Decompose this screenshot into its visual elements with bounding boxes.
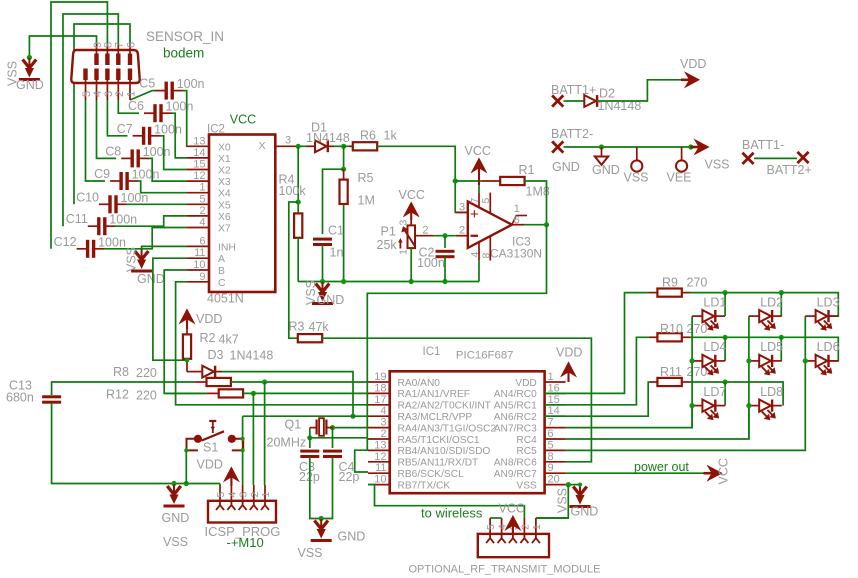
resistor R4 100k <box>294 213 302 237</box>
pin 14 AN6/RC2 of IC1 <box>545 415 566 417</box>
svg-text:5: 5 <box>480 198 492 204</box>
svg-text:4: 4 <box>199 217 205 229</box>
svg-text:SENSOR_IN: SENSOR_IN <box>146 29 224 44</box>
svg-text:LD7: LD7 <box>703 385 726 399</box>
wire R10 row to LED row2 cathodes <box>690 337 838 361</box>
wire IC1 pin2 row to crystal left <box>310 437 368 439</box>
pin 2 X6 of IC2 <box>187 215 209 217</box>
svg-text:VCC: VCC <box>465 144 491 158</box>
wire crystal right down to C4 <box>332 428 334 448</box>
wire junction down to R5 node <box>343 146 345 169</box>
svg-text:+: + <box>470 206 479 223</box>
svg-text:VCC: VCC <box>230 113 256 127</box>
pin 3 of IC3 <box>456 211 468 213</box>
svg-text:RB4/AN10/SDI/SDO: RB4/AN10/SDI/SDO <box>398 446 491 457</box>
pin 6 output of IC3 <box>512 224 525 226</box>
resistor R2 4k7 <box>186 329 188 336</box>
wire net from DB9 pin 7 wrap-around to C11 column <box>63 14 118 226</box>
svg-text:AN7/RC3: AN7/RC3 <box>494 423 537 434</box>
svg-text:B: B <box>218 266 225 277</box>
svg-text:X: X <box>259 141 266 152</box>
svg-text:R12: R12 <box>106 388 129 402</box>
potentiometer P1 25k <box>408 225 416 248</box>
ground symbol at IC2 INH <box>135 251 142 260</box>
svg-text:R1: R1 <box>519 163 535 177</box>
pin 19 RA0/AN0 of IC1 <box>368 381 390 383</box>
wire R9 row to LED row1 cathodes <box>690 293 838 317</box>
svg-text:BATT1+: BATT1+ <box>551 83 596 97</box>
node GND arrow junction bottom-left <box>171 481 176 486</box>
svg-text:R9: R9 <box>662 276 678 290</box>
svg-text:R2: R2 <box>200 331 216 345</box>
supply arrow VDD top right <box>681 79 690 82</box>
svg-text:4: 4 <box>469 252 481 258</box>
node ICSP1 junction on R8 row <box>262 379 267 384</box>
wire IC2 B select down to R12 <box>164 270 206 393</box>
switch S1 <box>187 439 198 451</box>
supply arrow VCC at RF pin3 <box>512 523 514 534</box>
svg-text:2: 2 <box>422 225 428 237</box>
wire R12 to IC1 RA1 <box>243 392 368 394</box>
svg-text:1: 1 <box>397 249 409 255</box>
svg-text:2: 2 <box>114 91 126 97</box>
node C1 rail junction <box>320 279 325 284</box>
svg-text:13: 13 <box>374 439 386 451</box>
wire IC1 pin9 power out <box>566 472 704 474</box>
resistor R11 270 <box>650 381 657 383</box>
svg-text:AN9/RC7: AN9/RC7 <box>494 469 537 480</box>
svg-text:-+M10: -+M10 <box>227 535 264 550</box>
svg-text:VSS: VSS <box>298 546 323 560</box>
node S1 left junction <box>184 481 189 486</box>
svg-text:9: 9 <box>548 462 554 474</box>
svg-text:LD4: LD4 <box>703 340 726 354</box>
node VSS arrow junction <box>688 144 693 149</box>
wire MCLR vertical S1 right to ICSP pin3 and pin-4 row <box>242 416 244 485</box>
wire C13 bottom to ground rail <box>52 403 220 484</box>
svg-text:bodem: bodem <box>163 46 204 61</box>
capacitor C13 680n <box>42 395 61 398</box>
node D1 output junction <box>341 144 346 149</box>
wire C10 to IC2 <box>126 203 187 205</box>
wire ICSP pin5 to ground rail <box>219 484 221 487</box>
svg-text:R11: R11 <box>660 365 682 379</box>
wire D3 cathode to MCLR node <box>222 372 353 417</box>
svg-text:AN6/RC2: AN6/RC2 <box>494 412 537 423</box>
LED LD6 <box>805 360 815 362</box>
svg-text:20: 20 <box>548 474 560 486</box>
capacitor C4 22p <box>323 450 342 453</box>
wire IC1 pin6 to LED column2 <box>566 406 749 439</box>
svg-text:100k: 100k <box>279 184 307 198</box>
pin 6 RC4 of IC1 <box>545 438 566 440</box>
wire IC2 X to D1 anode <box>297 145 306 147</box>
svg-text:13: 13 <box>193 135 205 147</box>
svg-text:11: 11 <box>194 247 205 259</box>
LED LD3 <box>805 315 815 317</box>
wire IC1 pin14 to R11 <box>545 382 650 416</box>
wire C1 bottom to rail <box>322 245 324 282</box>
connector X1 SENSOR_IN DB9 <box>71 50 139 83</box>
svg-text:X1: X1 <box>218 154 231 165</box>
capacitor C12 100n <box>77 248 87 250</box>
svg-text:power out: power out <box>634 460 689 474</box>
pin 11 A of IC2 <box>187 257 209 259</box>
wire IC1 pin20 VSS to ground <box>566 484 580 486</box>
pin 18 RA1/AN1/VREF of IC1 <box>368 392 390 394</box>
svg-text:9: 9 <box>199 271 205 283</box>
pin 3 X output of IC2 <box>275 145 297 147</box>
pin 10 RB7/TX/CK of IC1 <box>368 484 390 486</box>
svg-text:10: 10 <box>193 259 205 271</box>
svg-text:VEE: VEE <box>667 171 692 185</box>
wire IC2 INH to ground <box>142 246 187 249</box>
wire B-select R12 row <box>164 392 206 394</box>
wire R4 bottom to rail <box>297 237 299 281</box>
node output junction <box>544 222 549 227</box>
svg-text:22p: 22p <box>339 470 360 484</box>
svg-text:4: 4 <box>226 492 238 498</box>
wire R8 to IC1 RA0 <box>231 381 368 383</box>
crystal Q1 20MHz <box>310 427 316 429</box>
pin 2 of IC3 <box>456 235 468 237</box>
wire IC1 pin10 RB7 to wireless <box>368 485 524 518</box>
pin 6 INH of IC2 <box>187 245 209 247</box>
wire IC1 pin5 to LED column3 <box>566 361 806 451</box>
wire BATT1+ to D2 <box>564 100 585 102</box>
pin 2 RA5/T1CKI/OSC1 of IC1 <box>368 438 390 440</box>
wire LED anode column 2 <box>748 316 750 439</box>
wire feedback to R1 <box>455 180 482 182</box>
node pin20 junction <box>566 482 571 487</box>
LED LD4 <box>692 360 702 362</box>
wire C5 to IC2 <box>182 91 187 147</box>
wire feedback node to op-amp pin3 <box>455 181 468 212</box>
wire net from DB9 pin 8 wrap-around to C12 column <box>51 2 107 249</box>
pin 13 X0 of IC2 <box>187 145 209 147</box>
svg-text:X5: X5 <box>218 200 231 211</box>
svg-text:AN8/RC6: AN8/RC6 <box>494 458 537 469</box>
pin 15 AN5/RC1 of IC1 <box>545 404 566 406</box>
capacitor C9 100n <box>110 180 120 182</box>
pin 7 AN7/RC3 of IC1 <box>545 427 566 429</box>
svg-text:270: 270 <box>687 276 708 290</box>
svg-text:X3: X3 <box>218 177 231 188</box>
svg-text:C5: C5 <box>139 77 155 91</box>
supply arrow VCC at P1 <box>410 209 412 220</box>
svg-text:D3: D3 <box>208 348 224 362</box>
svg-text:X4: X4 <box>218 189 231 200</box>
pin 5 RC5 of IC1 <box>545 449 566 451</box>
pin 12 RB5/AN11/RX/DT of IC1 <box>368 461 390 463</box>
op IC2 4051N multiplexer box <box>209 135 275 293</box>
pin 8 AN8/RC6 of IC1 <box>545 461 566 463</box>
supply arrow VDD at ICSP pin4 <box>230 474 232 486</box>
node R5/C1 top junction <box>341 167 346 172</box>
svg-text:P1: P1 <box>381 225 396 239</box>
svg-text:2: 2 <box>199 205 205 217</box>
wire IC1 pin16 to R9 <box>545 293 649 394</box>
wire R11 row to LED row3 cathodes <box>690 382 783 406</box>
svg-text:LD8: LD8 <box>760 385 783 399</box>
svg-text:X6: X6 <box>218 212 231 223</box>
pin 4 RA3/MCLR/VPP of IC1 <box>368 415 390 417</box>
pin 15 X2 of IC2 <box>187 169 209 171</box>
svg-text:GND: GND <box>137 272 165 286</box>
supply arrow VCC at IC3 pin 7 <box>478 165 480 185</box>
svg-text:270: 270 <box>687 322 708 336</box>
svg-text:RC4: RC4 <box>516 435 537 446</box>
node GND tap <box>599 144 604 149</box>
wire LED anode column 1 <box>691 316 693 428</box>
svg-text:11: 11 <box>375 462 386 474</box>
svg-text:RC5: RC5 <box>516 446 537 457</box>
wire P1 wiper to C2/op-amp node <box>415 235 433 237</box>
wire DB9 pin 5 down to C9 <box>86 100 106 181</box>
svg-text:RB6/SCK/SCL: RB6/SCK/SCL <box>398 469 465 480</box>
wire pin20 down to RF module pin1 <box>536 485 568 518</box>
node C2 rail junction <box>442 279 447 284</box>
op-amp IC3 CA3130N <box>468 202 512 248</box>
svg-text:3: 3 <box>397 220 409 226</box>
ground net symbol GND small <box>601 147 603 156</box>
svg-text:220: 220 <box>136 389 157 403</box>
wire output down-left-down to IC1 RB6 <box>355 225 547 472</box>
resistor R1 1M8 <box>482 180 500 182</box>
wire BATT1- to BATT2+ <box>754 157 797 159</box>
svg-text:8: 8 <box>481 253 493 259</box>
wire DB9 pin 3 down to C7 <box>107 100 127 136</box>
wire D2 to VDD arrow <box>597 80 682 101</box>
LED LD8 <box>749 405 759 407</box>
svg-text:100n: 100n <box>143 145 171 159</box>
svg-text:C: C <box>218 278 226 289</box>
svg-text:LD3: LD3 <box>817 295 840 309</box>
wire C7 to IC2 <box>160 136 187 170</box>
wire analog ground rail <box>298 281 479 283</box>
svg-text:GND: GND <box>552 160 580 174</box>
svg-text:VSS: VSS <box>163 535 188 549</box>
node crystal left junction <box>307 435 312 440</box>
svg-text:17: 17 <box>374 394 386 406</box>
svg-text:7: 7 <box>548 417 554 429</box>
supply arrow VDD at R2 <box>186 316 188 329</box>
svg-text:RB5/AN11/RX/DT: RB5/AN11/RX/DT <box>398 458 479 469</box>
wire R5 bottom to rail <box>343 204 345 282</box>
ground symbol bottom-left <box>167 486 174 495</box>
svg-text:VCC: VCC <box>717 458 731 484</box>
resistor R12 220 <box>207 392 219 394</box>
svg-text:X2: X2 <box>218 166 231 177</box>
svg-text:1: 1 <box>199 182 205 194</box>
wire C3 C4 bottoms to ground <box>310 457 333 519</box>
wire IC1 pin15 to R10 <box>545 337 649 405</box>
pin 3 RA4/AN3/T1GI/OSC2 of IC1 <box>368 427 390 429</box>
svg-text:R3: R3 <box>289 320 305 334</box>
resistor R10 270 <box>649 336 657 338</box>
wire DB9 pin 4 down to C8 <box>97 100 117 158</box>
svg-text:GND: GND <box>571 505 599 519</box>
svg-text:10: 10 <box>374 474 386 486</box>
svg-text:RA5/T1CKI/OSC1: RA5/T1CKI/OSC1 <box>398 435 480 446</box>
wire crystal left column <box>309 428 311 448</box>
wire P1 top to VCC <box>410 220 412 225</box>
svg-text:18: 18 <box>374 382 386 394</box>
connector ICSP_PROG <box>208 501 276 523</box>
capacitor C10 100n <box>99 203 109 205</box>
svg-text:C7: C7 <box>117 122 133 136</box>
pin 1 X4 of IC2 <box>187 192 209 194</box>
pin 1 VDD of IC1 <box>545 381 566 383</box>
svg-text:GND: GND <box>162 511 190 525</box>
svg-text:LD6: LD6 <box>817 340 840 354</box>
svg-text:PIC16F687: PIC16F687 <box>456 350 514 362</box>
svg-text:12: 12 <box>193 170 205 182</box>
pin 17 RA2/AN2/T0CKI/INT of IC1 <box>368 404 390 406</box>
wire junction to C1 <box>323 169 344 234</box>
svg-text:2: 2 <box>519 524 531 530</box>
svg-text:IC2: IC2 <box>207 124 225 136</box>
svg-text:C9: C9 <box>94 167 110 181</box>
svg-text:X7: X7 <box>218 224 231 235</box>
svg-text:RA3/MCLR/VPP: RA3/MCLR/VPP <box>398 412 473 423</box>
svg-text:3: 3 <box>380 417 386 429</box>
pin 9 AN9/RC7 of IC1 <box>545 472 566 474</box>
svg-text:VCC: VCC <box>499 502 525 516</box>
node ICSP2 junction on R12 row <box>251 391 256 396</box>
svg-text:4k7: 4k7 <box>219 333 239 347</box>
pin circle VEE <box>681 147 683 160</box>
wire net from DB9 pin 9 to ground <box>29 36 96 58</box>
op IC1 PIC16F687 box <box>390 371 545 493</box>
pin 13 RB4/AN10/SDI/SDO of IC1 <box>368 449 390 451</box>
svg-text:S1: S1 <box>203 441 218 455</box>
pin 11 RB6/SCK/SCL of IC1 <box>368 472 390 474</box>
wire IC1 pin7 to LED column1 <box>566 406 693 428</box>
svg-text:C8: C8 <box>105 144 121 158</box>
svg-text:3: 3 <box>459 202 465 214</box>
svg-text:IC1: IC1 <box>423 346 441 358</box>
svg-text:LD2: LD2 <box>760 295 783 309</box>
svg-text:AN4/RC0: AN4/RC0 <box>494 389 537 400</box>
capacitor C5 100n <box>155 90 165 92</box>
svg-text:VSS: VSS <box>705 158 730 172</box>
svg-text:100n: 100n <box>177 77 205 91</box>
diode D2 1N4148 <box>584 95 596 107</box>
svg-text:GND: GND <box>317 293 345 307</box>
svg-text:100n: 100n <box>132 168 160 182</box>
resistor R6 1k <box>344 145 349 147</box>
svg-text:AN5/RC1: AN5/RC1 <box>494 401 537 412</box>
wire P1 bottom to rail <box>410 248 412 281</box>
svg-text:1k: 1k <box>384 129 398 143</box>
svg-text:2: 2 <box>459 225 465 237</box>
svg-text:CA3130N: CA3130N <box>490 247 542 261</box>
wire tap to R3 left <box>289 202 298 338</box>
ground symbol below rail <box>316 284 323 293</box>
svg-text:R8: R8 <box>113 365 129 379</box>
capacitor C7 100n <box>133 135 143 137</box>
svg-text:1: 1 <box>531 524 543 530</box>
wire BATT2- ground rail <box>564 146 692 148</box>
resistor R3 47k <box>298 334 322 342</box>
svg-text:47k: 47k <box>309 320 330 334</box>
svg-text:RB7/TX/CK: RB7/TX/CK <box>398 480 451 491</box>
pin circle VSS <box>636 147 638 160</box>
wire S1 left leg down to rail <box>185 450 187 483</box>
node X junction <box>296 144 301 149</box>
diode D3 1N4148 <box>194 371 202 373</box>
svg-text:C10: C10 <box>76 190 99 204</box>
svg-text:INH: INH <box>218 242 236 253</box>
LED LD1 <box>692 315 702 317</box>
svg-text:1: 1 <box>260 492 272 498</box>
svg-text:14: 14 <box>193 147 205 159</box>
svg-text:5: 5 <box>199 193 205 205</box>
wire C12 to IC2 <box>104 228 187 249</box>
pin 12 X3 of IC2 <box>187 180 209 182</box>
wire C13 top to R8 row <box>52 382 195 395</box>
wire X junction down to R4 <box>297 146 299 214</box>
wire DB9 pin 2 down to C6 <box>118 100 139 113</box>
svg-text:1n: 1n <box>330 246 344 260</box>
svg-text:A: A <box>218 254 225 265</box>
wire ICSP pin2 up to R12 row <box>252 393 254 485</box>
svg-text:GND: GND <box>592 163 620 177</box>
svg-text:2: 2 <box>249 492 261 498</box>
svg-text:4051N: 4051N <box>207 292 244 306</box>
svg-text:6: 6 <box>199 235 205 247</box>
svg-text:VDD: VDD <box>556 346 582 360</box>
wire C9 to IC2 <box>137 181 187 193</box>
svg-text:100n: 100n <box>417 256 445 270</box>
svg-text:8: 8 <box>548 451 554 463</box>
svg-text:3: 3 <box>285 134 291 146</box>
svg-text:VSS: VSS <box>125 247 139 272</box>
wire C8 to IC2 <box>148 158 187 181</box>
svg-text:20MHz: 20MHz <box>267 436 307 450</box>
svg-text:220: 220 <box>136 366 157 380</box>
svg-text:GND: GND <box>338 530 366 544</box>
svg-text:25k: 25k <box>377 238 398 252</box>
wire IC1 pin3 row to crystal <box>333 427 369 429</box>
svg-text:1N4148: 1N4148 <box>230 349 274 363</box>
supply arrow VCC power out <box>704 472 713 475</box>
wire C11 to IC2 <box>115 216 187 226</box>
svg-text:LD5: LD5 <box>760 340 783 354</box>
svg-text:BATT2-: BATT2- <box>551 127 593 141</box>
resistor R5 1M <box>343 169 345 179</box>
svg-text:VDD: VDD <box>515 378 537 389</box>
svg-text:1M: 1M <box>358 194 375 208</box>
svg-text:19: 19 <box>374 371 386 383</box>
capacitor C1 1n <box>313 238 332 241</box>
LED LD7 <box>692 405 702 407</box>
svg-text:6: 6 <box>125 42 137 48</box>
svg-text:100n: 100n <box>154 122 182 136</box>
wire op-amp output <box>524 224 546 226</box>
pin 1 tick of IC3 <box>512 216 516 225</box>
wire ICSP pin1 up to R8 row <box>264 382 266 485</box>
diode D1 1N4148 <box>306 145 315 147</box>
node crystal ground junction <box>319 516 324 521</box>
svg-text:RA0/AN0: RA0/AN0 <box>398 378 441 389</box>
node feedback junction <box>453 178 458 183</box>
wire IC2 A select down to R2/D3 node <box>153 258 187 360</box>
capacitor C2 100n <box>444 236 446 248</box>
svg-text:BATT2+: BATT2+ <box>767 163 812 177</box>
svg-text:7: 7 <box>114 42 126 48</box>
